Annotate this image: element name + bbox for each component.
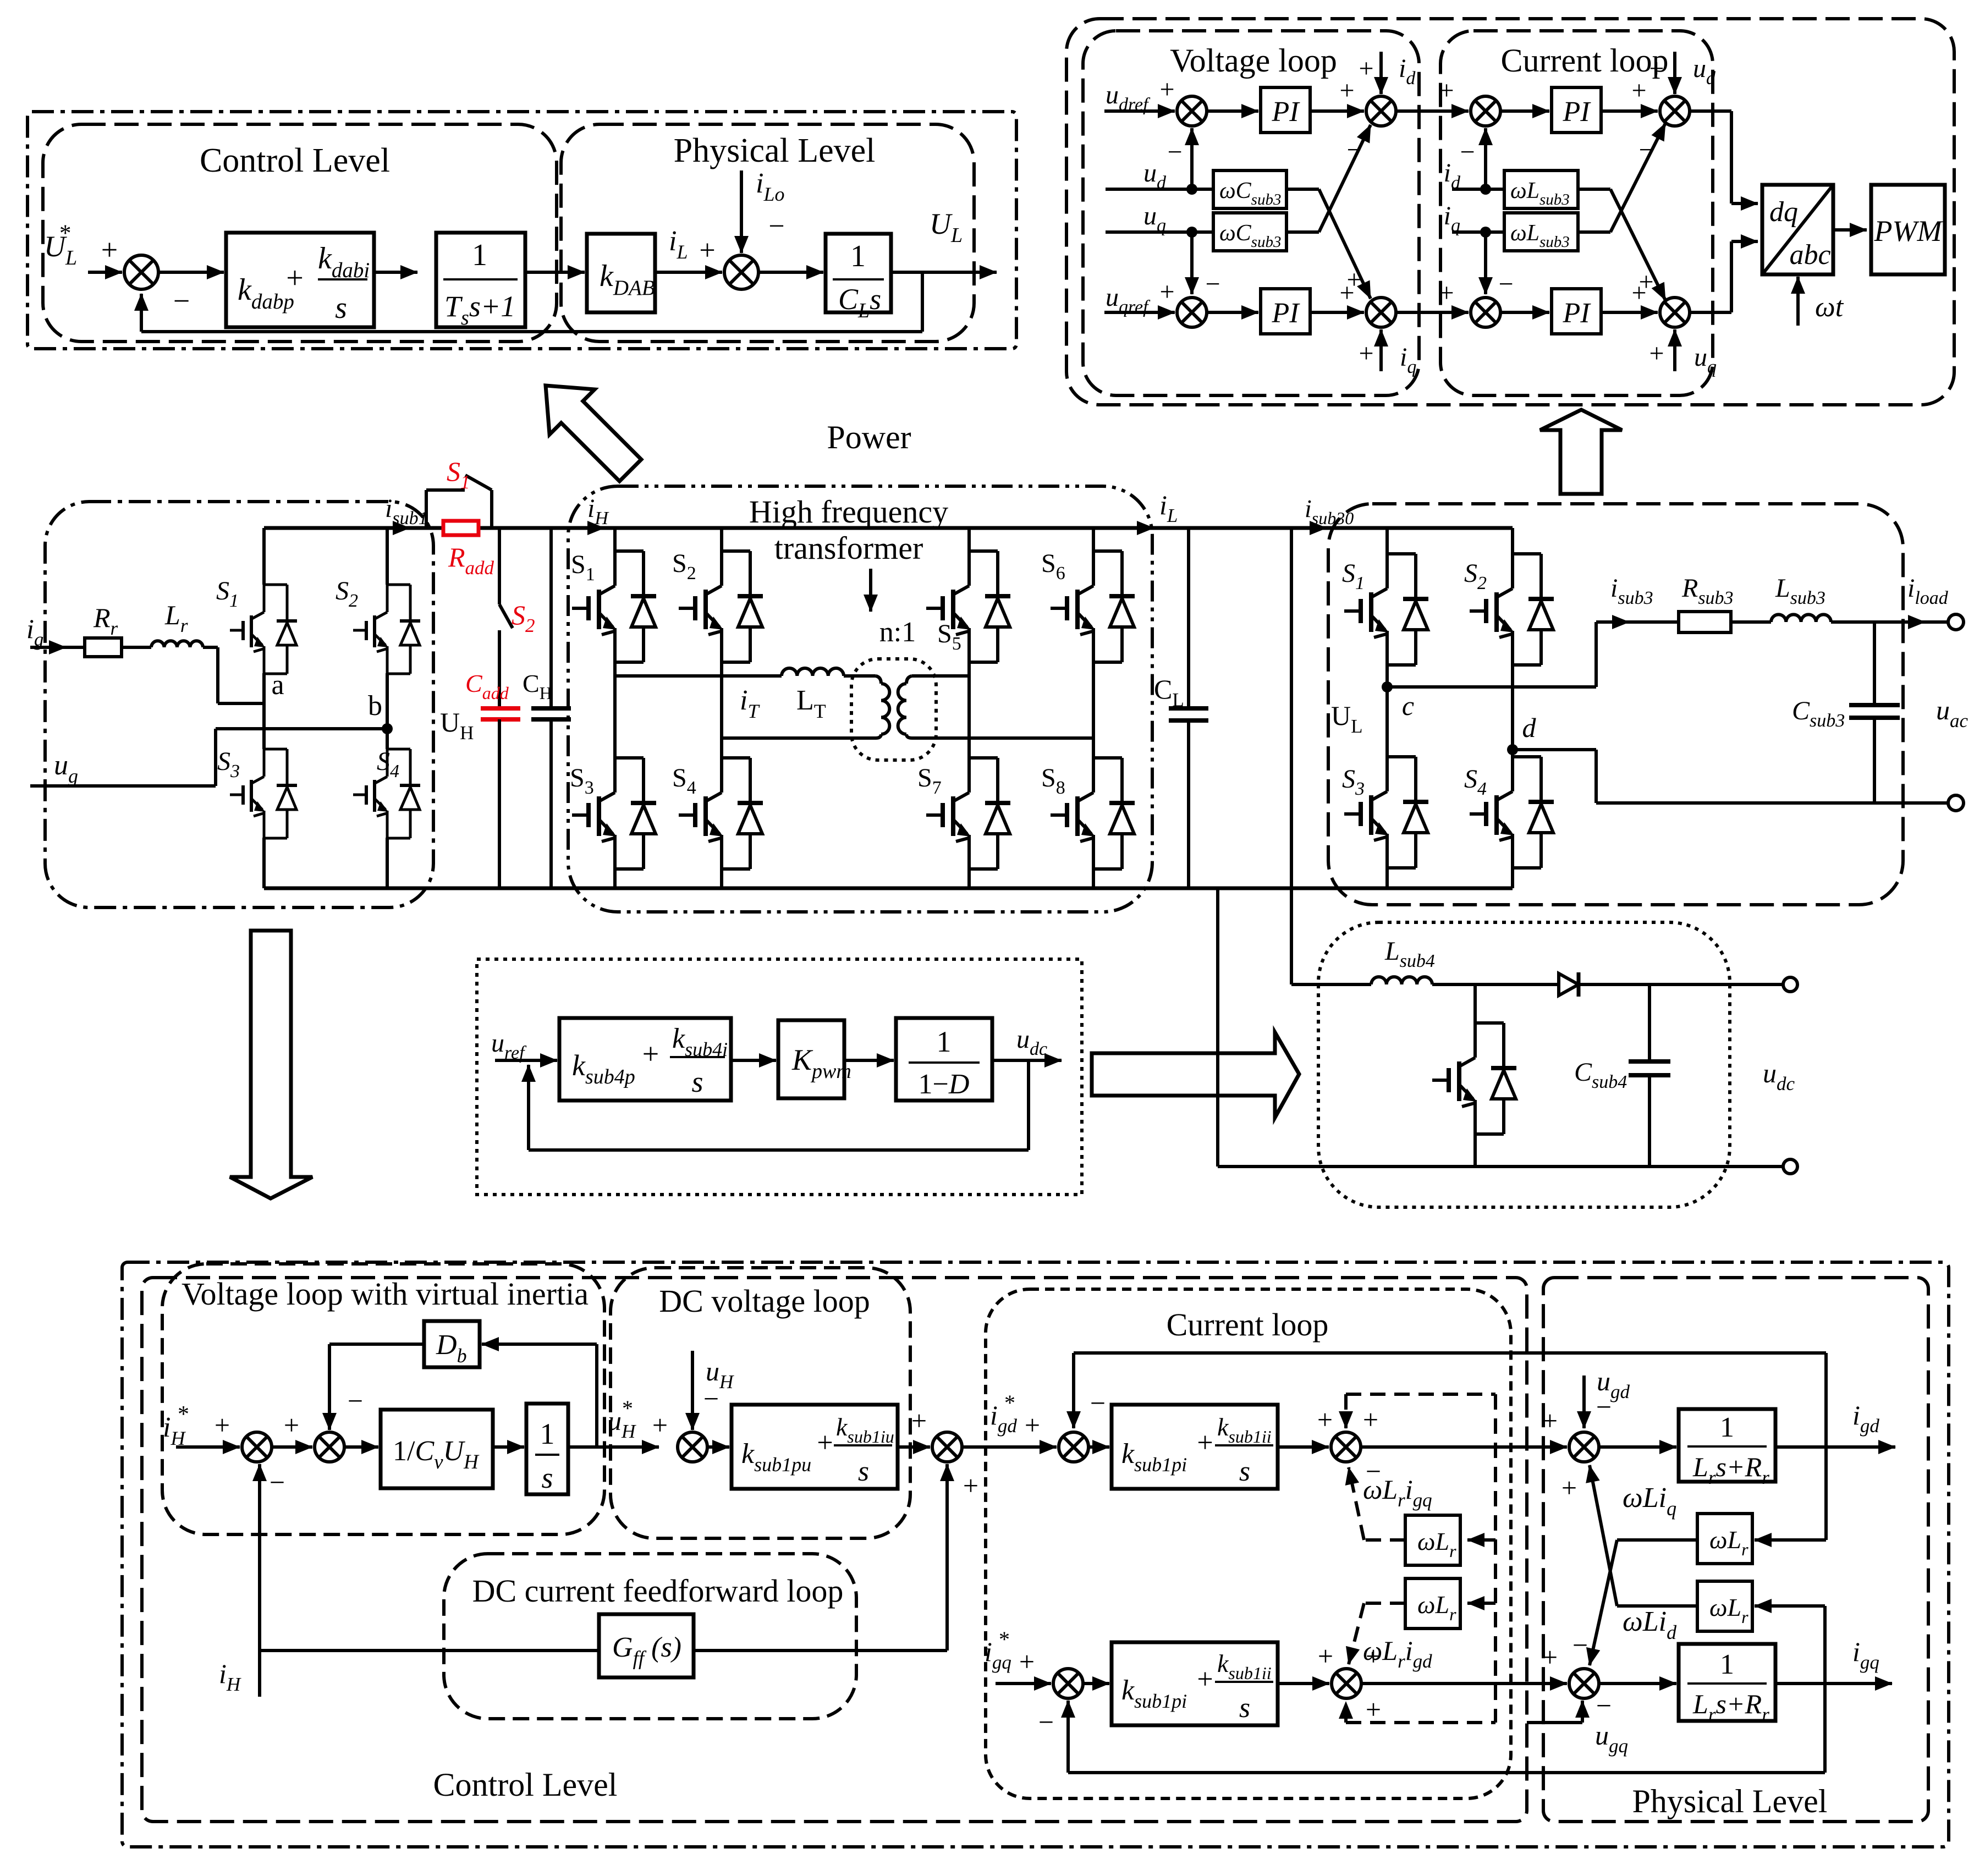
i_gd to omega L_r physical 1 bbox=[1824, 1447, 1828, 1540]
dashed feedforward ring top bbox=[1346, 1393, 1495, 1396]
sub1 leg1 wires bbox=[262, 528, 266, 585]
svg-text:Control Level: Control Level bbox=[200, 142, 390, 179]
sum V4 (i_q inject) bbox=[1366, 298, 1396, 327]
svg-text:+: + bbox=[1649, 339, 1664, 368]
input u_H arrow bbox=[691, 1351, 694, 1430]
svg-text:PI: PI bbox=[1562, 298, 1591, 329]
block 1/(L_r s + R_r) (q) bbox=[1679, 1644, 1775, 1721]
wire to 1/(1-D) bbox=[844, 1059, 894, 1062]
svg-text:+: + bbox=[1339, 76, 1354, 105]
secondary top wire bbox=[912, 674, 969, 678]
svg-text:−: − bbox=[1498, 269, 1513, 299]
wire node b to u_g return bbox=[216, 727, 387, 730]
boost control diagram dotted border bbox=[477, 959, 1082, 1195]
DC current feedforward loop box bbox=[444, 1554, 856, 1719]
block omega L_r control 2 bbox=[1405, 1578, 1460, 1629]
sum B4 bbox=[932, 1432, 962, 1462]
wire k_DAB to sum2 bbox=[655, 271, 722, 274]
svg-text:ωt: ωt bbox=[1815, 291, 1844, 323]
wire sum C2 to PI bbox=[1500, 311, 1549, 314]
svg-text:+: + bbox=[642, 1037, 659, 1070]
wire sum C1 to PI bbox=[1500, 109, 1549, 113]
svg-text:+: + bbox=[1359, 54, 1373, 83]
wire sum Q3 to 1/(Lr s+Rr) q block bbox=[1599, 1682, 1676, 1685]
cross-coupling diagonal LC1 to sum C4 bbox=[1578, 188, 1610, 191]
node d bbox=[1507, 744, 1518, 755]
wire sum B6 to sum B7 crossing boundary bbox=[1361, 1445, 1567, 1449]
capacitor C_L branch bbox=[1187, 528, 1190, 708]
svg-text:1: 1 bbox=[472, 238, 487, 272]
svg-text:+: + bbox=[1317, 1404, 1333, 1435]
block D_b bbox=[424, 1321, 480, 1367]
wire PI to sum V4 bbox=[1310, 311, 1364, 314]
wire sum B2 to block bbox=[344, 1445, 378, 1449]
block omega L_sub3 upper bbox=[1504, 170, 1578, 208]
svg-text:−: − bbox=[270, 1467, 285, 1498]
node i_d line bbox=[1452, 188, 1504, 191]
block k_sub1pu + k_sub1iu/s bbox=[732, 1405, 898, 1489]
inductor L_sub4 bbox=[1291, 983, 1371, 986]
svg-text:1−D: 1−D bbox=[919, 1069, 970, 1100]
sub3 IGBT S4 bbox=[1513, 755, 1541, 758]
sub3 inverter subsystem border bbox=[1328, 504, 1903, 905]
wire sum V3 to PI bbox=[1207, 311, 1258, 314]
capacitor C_sub4 bbox=[1648, 984, 1651, 1061]
block 1/(1-D) bbox=[896, 1018, 992, 1101]
IGBT S3 of sub1 bbox=[264, 748, 287, 751]
arrow to transformer bbox=[869, 569, 872, 612]
red capacitor C_add bbox=[481, 706, 520, 711]
block arrow to boost subsystem bbox=[1092, 1032, 1299, 1118]
wire dq/abc to PWM bbox=[1833, 228, 1867, 232]
wire node d to lower terminal bbox=[1513, 748, 1596, 751]
svg-text:c: c bbox=[1402, 690, 1414, 721]
block K_pwm bbox=[778, 1020, 844, 1098]
svg-text:+: + bbox=[1561, 1472, 1577, 1503]
svg-text:s: s bbox=[858, 1456, 869, 1487]
svg-text:1: 1 bbox=[540, 1417, 555, 1450]
wire sum C3 to dq/abc upper bbox=[1690, 109, 1731, 113]
svg-text:*: * bbox=[622, 1396, 633, 1421]
Voltage loop with virtual inertia box bbox=[162, 1264, 604, 1534]
sum C1 bbox=[1471, 96, 1500, 126]
wire sum B1 to sum B2 bbox=[272, 1445, 312, 1449]
input i_q bottom arrow bbox=[1379, 329, 1383, 371]
svg-text:+: + bbox=[284, 1410, 299, 1440]
wire u_dref to sum bbox=[1104, 109, 1175, 113]
wire to K_pwm bbox=[731, 1059, 776, 1062]
Voltage loop box bbox=[1083, 31, 1419, 395]
sum Q3 bbox=[1569, 1669, 1599, 1698]
block k_dabp + k_dabi/s bbox=[226, 233, 374, 327]
top rail DAB section bbox=[615, 526, 1117, 530]
sub1 rectifier subsystem border bbox=[45, 502, 433, 907]
wire to sum B6 bbox=[1278, 1445, 1329, 1449]
dashed stub into omega-Lr block1 bbox=[1467, 1538, 1495, 1542]
node c bbox=[1382, 681, 1393, 692]
block PI voltage q bbox=[1261, 289, 1310, 334]
block omega L_r physical 2 bbox=[1697, 1581, 1752, 1631]
svg-text:+: + bbox=[911, 1405, 927, 1436]
svg-text:−: − bbox=[1346, 135, 1361, 164]
wire sum B5 to k_sub1pi d block bbox=[1088, 1445, 1109, 1449]
bottom rail bbox=[264, 887, 1513, 890]
DAB IGBT S7 bbox=[969, 756, 998, 760]
sub3 IGBT S2 bbox=[1513, 552, 1541, 555]
output wire u_dc bbox=[992, 1059, 1062, 1062]
output i_gq arrow bbox=[1775, 1682, 1892, 1685]
block PI voltage d bbox=[1261, 87, 1310, 133]
DAB leg3 wires bbox=[967, 528, 971, 551]
svg-text:−: − bbox=[1205, 269, 1220, 299]
svg-text:Current loop: Current loop bbox=[1167, 1307, 1329, 1343]
wire 1/s to sum B3 bbox=[568, 1445, 597, 1449]
DAB IGBT S2 bbox=[722, 549, 750, 553]
svg-text:PI: PI bbox=[1271, 298, 1300, 329]
sum junction S2 (top-left loop) bbox=[724, 255, 758, 289]
omega L i_q coupling diagonal to sum B7 bbox=[1617, 1604, 1697, 1608]
svg-text:−: − bbox=[1460, 137, 1475, 167]
output wire U_L bbox=[891, 271, 997, 274]
D_b output to sum B2 bbox=[329, 1343, 424, 1346]
block 1/(C_L s) bbox=[826, 234, 891, 312]
svg-text:+: + bbox=[1159, 277, 1174, 306]
sum C3 (u_d inject) bbox=[1660, 96, 1690, 126]
block 1/s integrator bbox=[526, 1404, 568, 1494]
transformer primary winding bbox=[876, 676, 881, 684]
wire sum V4 to current loop sum C2 bbox=[1396, 311, 1469, 314]
DAB IGBT S4 bbox=[722, 756, 750, 760]
boost subsystem dotted border bbox=[1318, 922, 1730, 1207]
Current loop box (top-right) bbox=[1440, 31, 1713, 395]
wire diode to terminal bbox=[1579, 983, 1782, 986]
secondary bottom wire bbox=[912, 736, 1093, 740]
primary top wire with L_T bbox=[615, 674, 782, 678]
block omega L_r physical 1 bbox=[1697, 1514, 1752, 1564]
svg-text:+: + bbox=[1542, 1405, 1558, 1436]
Control Level box (top-left) bbox=[43, 124, 557, 342]
Control Level box (bottom) bbox=[142, 1278, 1527, 1822]
sum B5 bbox=[1059, 1432, 1088, 1462]
svg-text:1: 1 bbox=[937, 1025, 952, 1058]
i_L arrow on rail bbox=[1117, 526, 1154, 530]
wire sum B7 to 1/(Lr s+Rr) d block bbox=[1599, 1445, 1676, 1449]
svg-text:+: + bbox=[101, 233, 118, 266]
svg-text:PI: PI bbox=[1562, 96, 1591, 128]
svg-text:1: 1 bbox=[1720, 1412, 1734, 1443]
input i_d top arrow bbox=[1379, 52, 1383, 94]
input i_g arrow bbox=[30, 646, 66, 649]
IGBT S4 of sub1 bbox=[387, 748, 410, 751]
svg-text:+: + bbox=[652, 1410, 668, 1440]
bypass switch S_1 black bbox=[425, 490, 428, 528]
svg-text:transformer: transformer bbox=[774, 530, 923, 566]
wire sum to k_dabp block bbox=[158, 271, 224, 274]
capacitor C_H branch bbox=[549, 528, 553, 708]
wire U_L* to sum bbox=[88, 271, 122, 274]
svg-text:PI: PI bbox=[1271, 96, 1300, 128]
inductor L_sub3 bbox=[1731, 620, 1771, 624]
DAB leg1 wires bbox=[613, 528, 617, 551]
svg-text:+: + bbox=[1366, 1694, 1381, 1725]
svg-text:PWM: PWM bbox=[1874, 214, 1944, 247]
block omega C_sub3 upper bbox=[1213, 170, 1286, 208]
omega Lr igd coupling to sum B8 bbox=[1364, 1602, 1405, 1605]
wire sum B4 to sum B5 bbox=[962, 1445, 1057, 1449]
DAB subsystem border bbox=[568, 486, 1152, 912]
input omega t arrow bbox=[1796, 277, 1800, 326]
sum B3 bbox=[678, 1432, 707, 1462]
wire to k_DAB block bbox=[525, 271, 585, 274]
transformer secondary winding bbox=[906, 676, 912, 684]
svg-text:High frequency: High frequency bbox=[749, 494, 948, 530]
Current loop box (bottom) bbox=[986, 1289, 1511, 1798]
wire PI to sum C3 bbox=[1601, 109, 1658, 113]
svg-text:+: + bbox=[1439, 76, 1454, 105]
svg-text:+: + bbox=[963, 1470, 978, 1501]
svg-text:+: + bbox=[1159, 75, 1174, 104]
sum Q2 bbox=[1332, 1669, 1361, 1698]
bottom control subsystem outer border bbox=[122, 1262, 1949, 1847]
svg-text:+: + bbox=[1025, 1410, 1040, 1440]
svg-text:Voltage loop with virtual iner: Voltage loop with virtual inertia bbox=[182, 1276, 589, 1312]
input u_gd arrow bbox=[1582, 1376, 1586, 1428]
i_load arrow bbox=[1893, 620, 1925, 624]
wire to sum Q2 bbox=[1278, 1682, 1329, 1685]
sum V2 (i_d inject) bbox=[1366, 96, 1396, 126]
sum Q1 bbox=[1053, 1669, 1083, 1698]
resistor R_r bbox=[85, 638, 122, 657]
svg-text:DC voltage loop: DC voltage loop bbox=[659, 1283, 870, 1319]
svg-text:abc: abc bbox=[1789, 239, 1830, 271]
wire u_qref to sum V3 bbox=[1104, 311, 1175, 314]
IGBT S2 of sub1 bbox=[387, 584, 410, 586]
block arrow power to top-left control bbox=[523, 363, 653, 493]
svg-text:*: * bbox=[999, 1627, 1010, 1652]
feedforward wire G_ff bbox=[260, 1649, 599, 1652]
DAB IGBT S8 bbox=[1093, 756, 1122, 760]
Physical Level box (top-left) bbox=[561, 124, 974, 342]
block k_DAB bbox=[587, 234, 655, 312]
svg-text:+: + bbox=[215, 1410, 230, 1440]
DAB IGBT S5 bbox=[969, 549, 998, 553]
svg-text:dq: dq bbox=[1769, 196, 1798, 228]
block k_sub4p + k_sub4i/s bbox=[559, 1018, 731, 1101]
dashed ring bottom bbox=[1346, 1721, 1495, 1724]
DAB IGBT S3 bbox=[615, 756, 644, 760]
block k_sub1pi + k_sub1ii/s (q) bbox=[1112, 1642, 1278, 1725]
svg-text:n:1: n:1 bbox=[879, 617, 916, 648]
block 1/(L_r s + R_r) (d) bbox=[1679, 1409, 1775, 1482]
sub1 leg2 wires bbox=[386, 528, 389, 585]
svg-text:*: * bbox=[1004, 1390, 1015, 1415]
svg-text:+: + bbox=[1631, 76, 1646, 105]
wire PI to sum V2 bbox=[1310, 109, 1364, 113]
sum B1 bbox=[242, 1432, 272, 1462]
input wire u_ref bbox=[495, 1059, 557, 1062]
svg-text:s: s bbox=[335, 291, 347, 325]
capacitor C_sub3 branch bbox=[1873, 622, 1876, 705]
sum C4 (u_q inject) bbox=[1660, 298, 1690, 327]
red switch S_2 branch bbox=[498, 528, 501, 604]
DAB IGBT S1 bbox=[615, 549, 644, 553]
DAB leg2 wires bbox=[720, 528, 723, 551]
wire G_ff to sum B4 bbox=[694, 1649, 947, 1652]
svg-text:+: + bbox=[1318, 1641, 1333, 1671]
wire i_H* to sum B1 bbox=[176, 1445, 240, 1449]
cross-coupling diagonal LC2 to sum C3 bbox=[1578, 230, 1610, 234]
svg-text:−: − bbox=[173, 284, 190, 317]
dashed ring vertical bbox=[1494, 1394, 1497, 1723]
i_sub1 arrow on rail bbox=[387, 526, 410, 530]
sum B6 bbox=[1331, 1432, 1361, 1462]
svg-text:d: d bbox=[1522, 712, 1537, 743]
svg-text:−: − bbox=[703, 1383, 719, 1414]
block k_sub1pi + k_sub1ii/s (d) bbox=[1112, 1405, 1278, 1489]
omega L i_d coupling diagonal to sum B10 bbox=[1617, 1538, 1697, 1542]
block 1/(T_s s+1) bbox=[436, 233, 525, 327]
svg-text:+: + bbox=[1363, 1404, 1378, 1435]
node b bbox=[382, 723, 393, 734]
feedback wire boost control bbox=[1027, 1060, 1030, 1150]
sum V3 (u_qref) bbox=[1177, 298, 1207, 327]
wire i_gq* to sum Q1 bbox=[996, 1682, 1051, 1685]
dashed stub into omega-Lr block2 bbox=[1467, 1602, 1495, 1605]
virtual inertia feedback to D_b bbox=[595, 1344, 598, 1447]
node u_q line bbox=[1106, 230, 1213, 234]
wire node c to output bbox=[1387, 685, 1596, 689]
boost + feed wire from top rail bbox=[1290, 528, 1293, 984]
input u_d top arrow (current loop) bbox=[1673, 52, 1676, 94]
svg-text:−: − bbox=[1090, 1388, 1106, 1418]
output terminal upper bbox=[1948, 614, 1964, 630]
svg-text:1: 1 bbox=[850, 239, 866, 273]
primary bottom wire bbox=[722, 736, 876, 740]
wire PI to sum C4 bbox=[1601, 311, 1658, 314]
svg-text:−: − bbox=[1596, 1391, 1612, 1422]
wire L_r to node a bbox=[203, 646, 218, 649]
svg-text:*: * bbox=[178, 1402, 189, 1427]
sum B7 bbox=[1569, 1432, 1599, 1462]
resistor R_sub3 bbox=[1679, 612, 1731, 632]
wire sum V1 to PI bbox=[1207, 109, 1258, 113]
block omega L_r control 1 bbox=[1405, 1515, 1460, 1565]
sum C2 bbox=[1471, 298, 1500, 327]
svg-text:s: s bbox=[1239, 1692, 1250, 1724]
sum B2 bbox=[315, 1432, 344, 1462]
svg-text:+: + bbox=[1197, 1427, 1213, 1459]
wire to sum B4 bbox=[898, 1445, 930, 1449]
block omega L_sub3 lower bbox=[1504, 213, 1578, 251]
top-right control subsystem outer border bbox=[1066, 19, 1954, 405]
block arrow power to bottom control bbox=[230, 931, 312, 1198]
sum V1 (u_dref) bbox=[1177, 96, 1207, 126]
svg-text:b: b bbox=[368, 690, 382, 722]
feedback wire (top-left loop) bbox=[921, 272, 924, 332]
boost IGBT switch bbox=[1475, 1021, 1504, 1025]
DC voltage loop box bbox=[611, 1268, 910, 1538]
sub3 IGBT S1 bbox=[1387, 552, 1416, 555]
svg-text:+: + bbox=[1339, 278, 1354, 307]
i_gq feedback to omega L_r physical 2 bbox=[1823, 1606, 1827, 1684]
cross-coupling diagonal uC2 to sum V2 bbox=[1286, 230, 1319, 234]
i_sub3 arrow bbox=[1596, 620, 1629, 624]
wire L_sub4 to diode bbox=[1432, 983, 1558, 986]
svg-text:+: + bbox=[1359, 339, 1373, 368]
svg-text:+: + bbox=[1019, 1646, 1035, 1677]
input u_q bottom arrow bbox=[1673, 329, 1676, 371]
inductor L_r bbox=[151, 641, 203, 647]
svg-text:DC current feedforward loop: DC current feedforward loop bbox=[472, 1573, 844, 1609]
DAB IGBT S6 bbox=[1093, 549, 1122, 553]
svg-text:Voltage loop: Voltage loop bbox=[1170, 42, 1337, 79]
svg-text:s: s bbox=[691, 1065, 703, 1098]
node u_d line bbox=[1106, 188, 1213, 191]
boost upper terminal bbox=[1783, 977, 1797, 992]
i_H arrow on rail bbox=[572, 526, 604, 530]
node i_q line bbox=[1452, 230, 1504, 234]
svg-text:−: − bbox=[1638, 135, 1653, 164]
block PI current q bbox=[1552, 289, 1601, 334]
svg-text:−: − bbox=[1572, 1630, 1588, 1660]
i_gq feedback down to sum Q1 bbox=[1823, 1684, 1827, 1773]
svg-text:s: s bbox=[1239, 1456, 1250, 1487]
wire sum B3 to k_sub1pu block bbox=[707, 1445, 729, 1449]
block PI current d bbox=[1552, 87, 1601, 133]
svg-text:1: 1 bbox=[1720, 1649, 1734, 1680]
top-left DAB control subsystem outer border bbox=[28, 112, 1016, 349]
cross-coupling diagonal uC1 to sum V4 bbox=[1286, 188, 1319, 191]
svg-text:s: s bbox=[541, 1461, 553, 1494]
svg-text:+: + bbox=[1366, 1641, 1381, 1671]
sum junction S1 (top-left loop) bbox=[124, 255, 158, 289]
wire sum C4 to dq/abc lower bbox=[1690, 311, 1731, 314]
block arrow power to top-right control bbox=[1540, 410, 1622, 494]
svg-text:+: + bbox=[1649, 54, 1664, 83]
block G_ff(s) bbox=[599, 1614, 694, 1677]
wire sum Q2 to sum Q3 bbox=[1361, 1682, 1567, 1685]
i_gd feedback up and to sum B5 bbox=[1824, 1353, 1828, 1447]
block omega C_sub3 lower bbox=[1213, 213, 1286, 251]
svg-text:+: + bbox=[286, 261, 304, 295]
boost diode bbox=[1559, 973, 1579, 995]
svg-text:−: − bbox=[768, 211, 784, 242]
sub3 leg2 wires bbox=[1511, 528, 1514, 554]
svg-text:+: + bbox=[1197, 1664, 1213, 1695]
svg-text:+: + bbox=[1439, 278, 1454, 307]
top rail to sub3 bbox=[1154, 526, 1513, 530]
svg-text:Control Level: Control Level bbox=[433, 1767, 618, 1803]
svg-text:Power: Power bbox=[827, 419, 911, 455]
block 1/C_v U_H bbox=[381, 1410, 493, 1488]
svg-text:−: − bbox=[1038, 1707, 1054, 1737]
svg-text:−: − bbox=[1596, 1690, 1612, 1721]
wire block to 1/s bbox=[493, 1445, 524, 1449]
svg-text:−: − bbox=[1167, 137, 1182, 167]
sub3 leg1 wires bbox=[1385, 528, 1389, 554]
wire to load terminal bbox=[1831, 620, 1920, 624]
wire to 1/(T_s s+1) block bbox=[374, 271, 417, 274]
svg-text:Physical Level: Physical Level bbox=[1632, 1783, 1828, 1819]
svg-text:+: + bbox=[1631, 278, 1646, 307]
input i_Lo arrow bbox=[740, 170, 743, 253]
svg-text:−: − bbox=[348, 1385, 363, 1416]
svg-text:*: * bbox=[59, 221, 72, 246]
sub3 IGBT S3 bbox=[1387, 755, 1416, 758]
red resistor R_add bbox=[443, 521, 479, 535]
DAB leg4 wires bbox=[1092, 528, 1095, 551]
top rail left section bbox=[264, 526, 387, 530]
